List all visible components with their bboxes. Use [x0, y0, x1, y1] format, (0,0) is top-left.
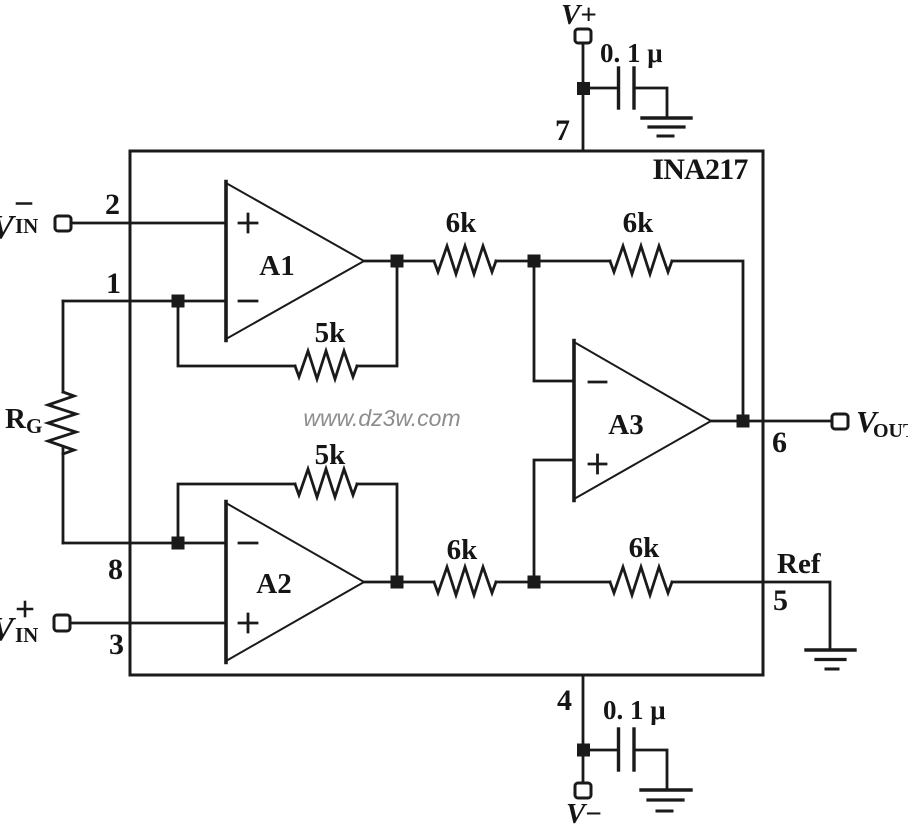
svg-text:IN: IN: [15, 623, 38, 647]
svg-text:0. 1 μ: 0. 1 μ: [600, 38, 663, 68]
wire between bottom 6k resistors: [496, 581, 610, 584]
terminal VOUT: [832, 414, 848, 429]
svg-text:G: G: [26, 414, 42, 438]
svg-text:6k: 6k: [623, 207, 655, 239]
wire C2 to ground: [636, 750, 668, 788]
wire node 8 (to A2 -): [63, 542, 226, 545]
wire A2 feedback (up and across): [178, 484, 295, 537]
ground (top decoupling): [642, 118, 691, 136]
svg-text:7: 7: [555, 114, 570, 147]
resistor 6k (bottom left): [434, 567, 496, 595]
terminal V-: [575, 783, 591, 798]
svg-text:6k: 6k: [447, 534, 479, 566]
wire RG bottom segment: [62, 448, 65, 543]
svg-text:6k: 6k: [629, 532, 661, 564]
IC boundary box U1: [130, 151, 763, 675]
label RG: [5, 403, 42, 438]
ground (bottom decoupling): [641, 790, 691, 811]
wire A1 feedback (down and across): [178, 307, 295, 366]
resistor RG: [48, 392, 76, 454]
wire A3 non-inverting input: [534, 460, 574, 576]
terminal VIN-: [55, 216, 71, 231]
svg-text:1: 1: [106, 267, 121, 300]
wire V- node to C2: [590, 749, 617, 752]
svg-text:4: 4: [557, 684, 572, 717]
op-amp A3: [574, 341, 711, 501]
label VIN+: [0, 611, 38, 648]
svg-text:6: 6: [772, 426, 787, 459]
terminal V+: [575, 29, 591, 43]
svg-text:2: 2: [105, 188, 120, 221]
junction A3 output: [737, 415, 750, 428]
junction node 1: [172, 295, 185, 308]
resistor 6k (top left): [434, 246, 496, 274]
svg-text:0. 1 μ: 0. 1 μ: [603, 695, 666, 725]
svg-text:6k: 6k: [446, 207, 478, 239]
svg-text:A1: A1: [259, 250, 294, 282]
wire pin 4 (box to V-): [582, 675, 585, 783]
wire A1 output row: [364, 260, 434, 263]
junction at V+ decoupling node: [577, 82, 590, 95]
wire feedback up to A1 output: [357, 267, 397, 366]
junction top middle node: [528, 255, 541, 268]
wire top row down to A3 output node: [672, 261, 743, 415]
resistor 5k (A1 feedback): [295, 351, 357, 379]
junction A2 output: [391, 576, 404, 589]
op-amp A2: [226, 502, 364, 663]
svg-text:3: 3: [109, 628, 124, 661]
capacitor C2: [619, 729, 635, 770]
svg-text:V: V: [0, 209, 16, 246]
svg-text:5k: 5k: [315, 317, 347, 349]
svg-text:5: 5: [773, 584, 788, 617]
wire A2 output row: [364, 581, 434, 584]
op-amp A1: [226, 182, 364, 341]
resistor 5k (A2 feedback): [295, 469, 357, 497]
wire pin 3 (VIN+ to A2 +): [70, 622, 226, 625]
svg-text:R: R: [5, 403, 27, 435]
svg-text:IN: IN: [15, 214, 38, 238]
wire pin 2 (VIN- to A1 +): [71, 222, 226, 225]
wire Ref net: [672, 582, 830, 648]
svg-text:OUT: OUT: [873, 420, 908, 442]
superscript plus of VIN+: [18, 602, 32, 616]
wire C1 to ground: [636, 88, 668, 116]
junction node 8: [172, 537, 185, 550]
svg-text:8: 8: [108, 553, 123, 586]
svg-text:Ref: Ref: [777, 548, 821, 580]
resistor 6k (top right): [610, 246, 672, 274]
svg-text:V+: V+: [561, 0, 597, 31]
wire RG top segment: [62, 301, 65, 392]
svg-text:V: V: [0, 611, 16, 648]
capacitor C1: [619, 68, 635, 108]
svg-text:INA217: INA217: [652, 153, 748, 186]
wire node 1 (to A1 -): [63, 300, 226, 303]
svg-text:V−: V−: [566, 798, 602, 830]
wire V+ node to C1: [590, 87, 617, 90]
terminal VIN+: [54, 615, 70, 631]
svg-text:www.dz3w.com: www.dz3w.com: [303, 405, 460, 431]
label VOUT: [856, 404, 908, 442]
wire between top 6k resistors: [496, 260, 610, 263]
superscript minus of VIN-: [17, 202, 31, 205]
svg-text:A3: A3: [608, 409, 643, 441]
wire A3 output to VOUT: [711, 420, 832, 423]
junction bottom middle node: [528, 576, 541, 589]
junction at V- decoupling node: [577, 744, 590, 757]
wire A3 inverting input: [534, 267, 574, 381]
junction A1 output: [391, 255, 404, 268]
label VIN-: [0, 209, 38, 246]
svg-text:A2: A2: [256, 568, 291, 600]
wire pin 7 (V+ to box): [582, 43, 585, 151]
ground (Ref): [806, 650, 855, 669]
resistor 6k (bottom right): [610, 567, 672, 595]
svg-text:5k: 5k: [315, 439, 347, 471]
wire feedback down to A2 output: [357, 484, 397, 576]
